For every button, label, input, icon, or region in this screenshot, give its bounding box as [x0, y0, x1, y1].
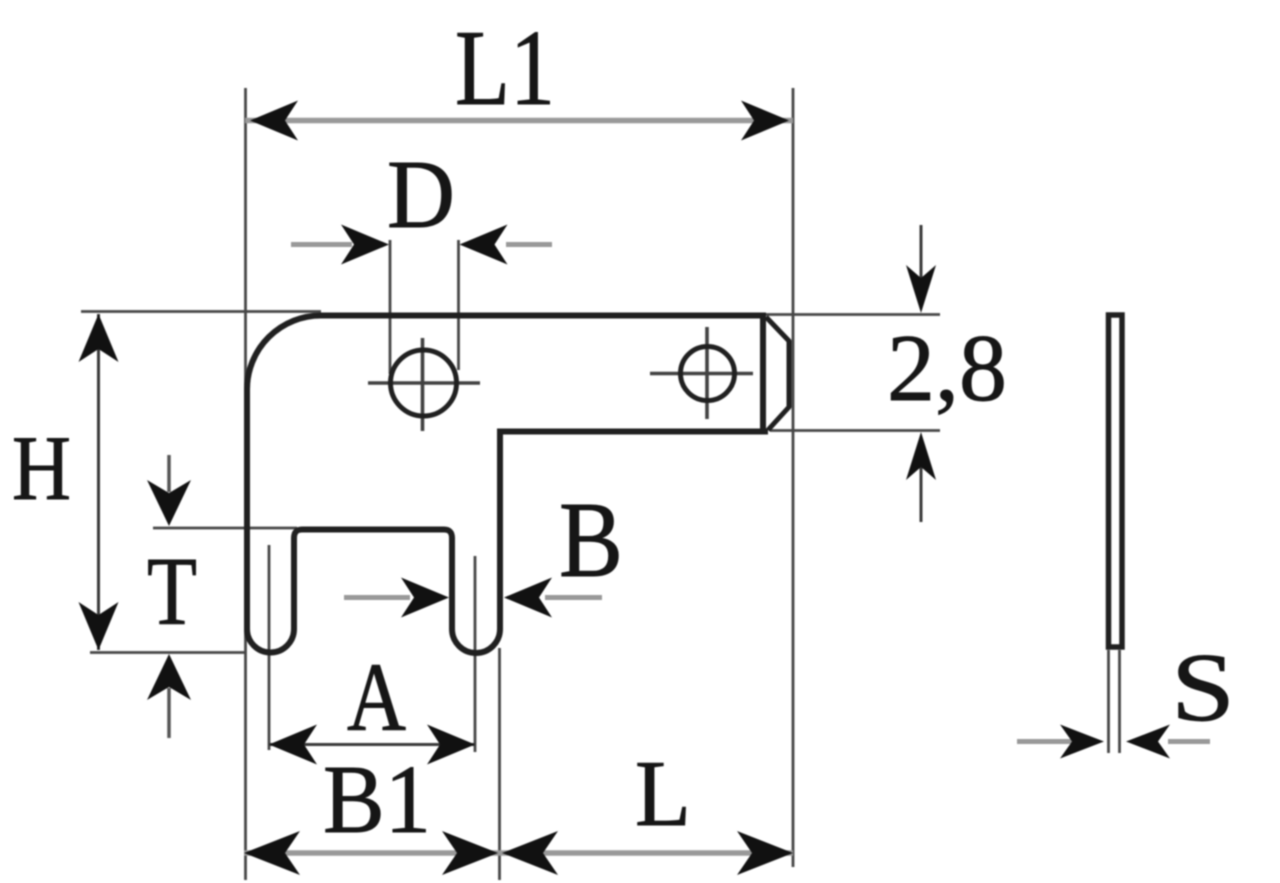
svg-text:A: A — [347, 644, 406, 751]
svg-text:L1: L1 — [455, 9, 555, 128]
svg-text:B1: B1 — [323, 746, 431, 853]
svg-text:D: D — [387, 141, 455, 248]
svg-text:L: L — [635, 742, 691, 846]
svg-text:T: T — [147, 538, 197, 645]
svg-text:S: S — [1171, 634, 1235, 741]
svg-text:2,8: 2,8 — [887, 315, 1007, 421]
svg-text:B: B — [559, 481, 623, 600]
svg-text:H: H — [12, 417, 71, 519]
